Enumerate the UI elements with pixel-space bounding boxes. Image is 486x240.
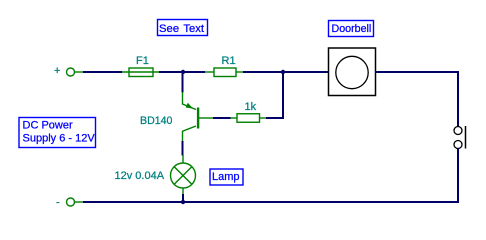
junction node (lamp to bottom rail): [181, 200, 185, 204]
svg-text:F1: F1: [136, 55, 149, 67]
wire: lamp to bottom rail: [182, 194, 184, 202]
note box Lamp: [210, 169, 243, 185]
doorbell B1: [329, 48, 376, 96]
lamp LP1: [171, 155, 196, 194]
note box Doorbell: [329, 21, 374, 37]
fuse F1: [122, 68, 159, 77]
wire: base to resistor R2: [213, 117, 231, 119]
transistor Q1 BD140 (PNP): [183, 92, 214, 142]
svg-text:See Text: See Text: [159, 23, 205, 35]
junction node (emitter tap): [181, 70, 185, 74]
svg-text:Lamp: Lamp: [212, 171, 240, 183]
svg-text:Doorbell: Doorbell: [332, 23, 372, 35]
resistor R2 1k: [231, 114, 267, 123]
svg-text:-: -: [56, 196, 60, 208]
svg-text:DC Power: DC Power: [23, 120, 73, 132]
wire: top junction down to transistor emitter: [182, 74, 184, 93]
note box See Text: [158, 20, 208, 36]
svg-text:BD140: BD140: [140, 115, 172, 127]
wire: R2 up to top rail junction: [266, 74, 283, 118]
wire: R1 to doorbell: [243, 71, 328, 73]
wire: fuse F1 to resistor R1: [159, 71, 205, 73]
svg-text:1k: 1k: [245, 101, 257, 113]
terminal + (positive supply): [67, 68, 84, 76]
wire: doorbell to switch: [375, 72, 458, 126]
wire: switch down and along bottom rail: [83, 149, 458, 203]
svg-text:R1: R1: [222, 55, 236, 67]
terminal - (negative supply): [67, 198, 84, 206]
svg-text:Supply 6 - 12V: Supply 6 - 12V: [23, 133, 96, 145]
note box DC Power Supply 6 - 12V: [19, 118, 96, 148]
junction node (base feed tap): [281, 70, 285, 74]
push switch SW1: [454, 126, 466, 149]
resistor R1: [205, 68, 243, 77]
svg-text:+: +: [54, 65, 60, 77]
svg-text:12v 0.04A: 12v 0.04A: [115, 170, 165, 182]
wire top rail: + terminal to fuse F1: [83, 71, 122, 73]
wire: collector down to lamp: [182, 141, 184, 156]
